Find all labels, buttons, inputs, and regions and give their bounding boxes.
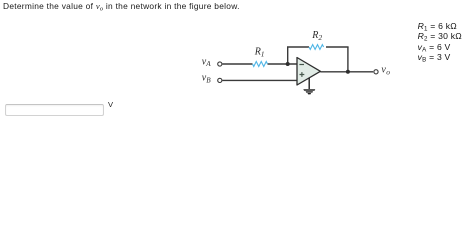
wire op-amp output to vo terminal xyxy=(320,71,373,73)
resistor R1 xyxy=(253,62,268,67)
resistor R2 xyxy=(309,45,324,50)
svg-text:R2: R2 xyxy=(311,30,322,42)
svg-text:R1: R1 xyxy=(254,47,265,59)
output node junction dot xyxy=(346,70,350,74)
given parameter values xyxy=(418,21,462,62)
wire vA terminal to R1 xyxy=(222,63,252,65)
terminal vo xyxy=(374,70,378,74)
op-amp U1 xyxy=(297,58,320,86)
wire feedback vertical down to output node xyxy=(347,47,349,72)
terminal vB xyxy=(218,78,222,82)
svg-text:vB: vB xyxy=(202,73,211,85)
wire R1 to op-amp inverting input xyxy=(268,63,298,65)
ground xyxy=(303,78,315,95)
terminal vA xyxy=(218,62,222,66)
answer unit V xyxy=(108,100,113,109)
wire R2 to right corner xyxy=(326,46,349,48)
node A junction dot xyxy=(286,62,290,66)
svg-text:vA: vA xyxy=(202,56,211,68)
wire feedback vertical up from node A xyxy=(287,47,289,64)
title text xyxy=(3,1,240,11)
wire feedback top left to R2 xyxy=(287,46,309,48)
wire vB terminal to op-amp non-inverting input xyxy=(222,79,297,81)
answer input box xyxy=(5,104,104,116)
svg-text:vo: vo xyxy=(381,64,390,76)
